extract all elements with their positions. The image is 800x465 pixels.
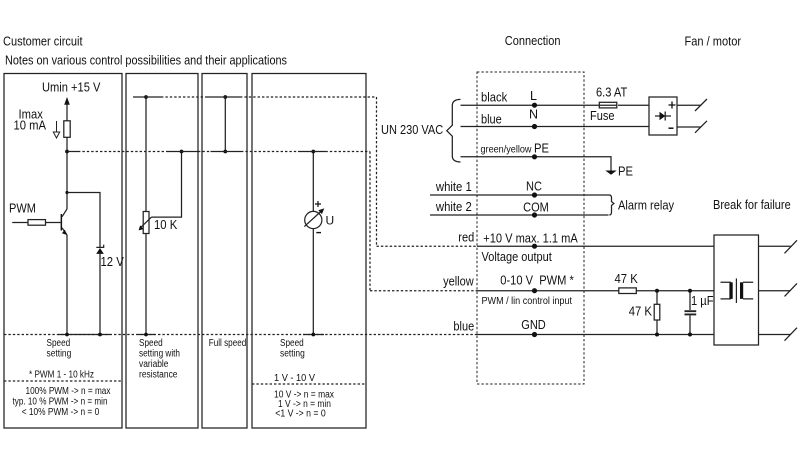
svg-text:U: U xyxy=(326,214,335,228)
svg-text:Break for failure: Break for failure xyxy=(713,198,791,212)
svg-text:blue: blue xyxy=(481,112,502,126)
svg-text:Umin +15 V: Umin +15 V xyxy=(42,81,101,95)
svg-text:white 2: white 2 xyxy=(435,200,472,214)
wire GND through break output xyxy=(759,334,791,336)
+10V bus: dashed seg to box3 node xyxy=(161,96,205,98)
box1: collector branch dot xyxy=(65,191,68,194)
fan rectifier diode line xyxy=(655,115,671,117)
svg-text:Fan / motor: Fan / motor xyxy=(685,35,742,49)
+10V bus: dashed horiz to connection box xyxy=(377,245,478,247)
svg-text:6.3 AT: 6.3 AT xyxy=(596,86,628,100)
svg-text:0-10 V PWM *: 0-10 V PWM * xyxy=(500,274,574,288)
control bus: dashed to box4 xyxy=(241,151,298,153)
+10V bus: solid seg in box2 xyxy=(133,96,161,98)
control bus: solid seg box2 node xyxy=(168,151,198,153)
wire N (blue) xyxy=(461,126,650,128)
svg-text:Notes on various control possi: Notes on various control possibilities a… xyxy=(5,54,287,68)
svg-text:PWM: PWM xyxy=(9,202,36,216)
wire 0-10V through break output xyxy=(759,290,791,292)
svg-text:PE: PE xyxy=(534,141,549,155)
fan - output wire xyxy=(677,126,701,128)
box4: node dot xyxy=(311,150,315,154)
fuse element line xyxy=(599,104,617,106)
box1: wire resistor to node xyxy=(66,137,68,209)
svg-text:<1 V -> n = 0: <1 V -> n = 0 xyxy=(275,409,326,420)
customer box 2 xyxy=(126,74,198,429)
fan rectifier diode triangle xyxy=(660,112,666,121)
PE earth drop arrow xyxy=(605,171,616,175)
break box connector symbol: centre pin xyxy=(735,278,737,303)
control bus: dashed horiz to connection box xyxy=(370,290,477,292)
box1: small current arrow (open head) xyxy=(53,121,59,138)
svg-text:red: red xyxy=(458,230,474,244)
fan + output wire xyxy=(677,104,701,106)
svg-text:Customer circuit: Customer circuit xyxy=(3,35,83,49)
control bus: solid seg box4 node xyxy=(298,151,325,153)
box3: full-speed strap wire xyxy=(224,97,226,152)
voltmeter minus sign xyxy=(316,232,321,234)
box3: strap dots xyxy=(223,95,227,99)
svg-text:Connection: Connection xyxy=(505,34,561,48)
svg-text:10 K: 10 K xyxy=(154,218,178,232)
svg-text:47 K: 47 K xyxy=(629,305,653,319)
box2: vertical wire from +10 bus to pot xyxy=(145,97,147,212)
svg-text:Fuse: Fuse xyxy=(590,109,615,123)
svg-text:1 V - 10 V: 1 V - 10 V xyxy=(274,373,315,384)
fan + output break slash xyxy=(695,99,707,111)
transistor Q1 emitter arrowhead xyxy=(62,230,67,235)
svg-text:setting: setting xyxy=(47,349,72,360)
customer box 4 xyxy=(252,74,366,429)
customer box 1 xyxy=(4,74,122,429)
wire 0-10V right of resistor xyxy=(636,290,714,292)
pot bottom wire to ground bus xyxy=(145,234,147,335)
pot wiper node dot xyxy=(180,150,184,154)
emitter wire to ground bus xyxy=(66,235,68,335)
svg-text:resistance: resistance xyxy=(139,370,178,381)
svg-text:100% PWM -> n = max: 100% PWM -> n = max xyxy=(26,386,111,397)
box1: wire to zener branch xyxy=(67,193,100,248)
svg-text:green/yellow: green/yellow xyxy=(481,144,533,155)
svg-text:10 mA: 10 mA xyxy=(14,119,47,133)
potentiometer 10K body xyxy=(143,212,149,234)
svg-text:variable: variable xyxy=(139,359,169,370)
voltmeter plus sign xyxy=(315,201,321,207)
+10V bus: solid seg box3 xyxy=(205,96,240,98)
control bus: dashed to corner xyxy=(325,151,370,153)
box1: resistor Imax (vertical) xyxy=(64,121,70,138)
fuse body xyxy=(599,102,617,108)
zener lower wire xyxy=(99,254,101,335)
box4 separator dashed xyxy=(252,383,366,385)
wire +10V through break output xyxy=(759,245,791,247)
svg-text:setting with: setting with xyxy=(139,349,180,360)
svg-text:12 V: 12 V xyxy=(101,255,125,269)
svg-text:Alarm relay: Alarm relay xyxy=(618,199,675,213)
transistor Q1 emitter diagonal xyxy=(62,228,67,235)
break slash yellow line xyxy=(785,283,798,296)
wire PE (green/yellow) xyxy=(461,157,612,171)
junction dots on connection lines xyxy=(532,103,537,108)
wire +10V (red) solid xyxy=(477,245,714,247)
wire L (black) xyxy=(461,104,650,106)
svg-text:black: black xyxy=(481,91,508,105)
ground bus junction dots xyxy=(65,333,69,337)
svg-text:* PWM 1 - 10 kHz: * PWM 1 - 10 kHz xyxy=(29,370,94,381)
svg-text:GND: GND xyxy=(521,318,546,332)
control bus: dashed vertical drop xyxy=(369,152,371,291)
svg-text:white 1: white 1 xyxy=(435,180,472,194)
svg-text:1 µF: 1 µF xyxy=(691,294,714,308)
svg-text:blue: blue xyxy=(453,320,474,334)
capacitor 1uF plates xyxy=(685,311,697,314)
transistor Q1 base bar xyxy=(61,214,63,231)
wire COM xyxy=(430,214,609,216)
node dots at 47K and cap xyxy=(655,289,659,293)
break slash gnd line xyxy=(785,328,798,341)
svg-text:setting: setting xyxy=(280,349,305,360)
ground bus dashed across customer boxes xyxy=(4,334,477,336)
box1: supply vertical wire upper xyxy=(66,103,68,121)
box1: supply arrow up xyxy=(64,97,70,105)
+10V bus: dashed vertical drop xyxy=(376,97,378,246)
voltmeter arrow xyxy=(304,211,322,227)
svg-text:Voltage output: Voltage output xyxy=(482,250,553,264)
svg-text:Speed: Speed xyxy=(139,338,163,349)
svg-text:Full speed: Full speed xyxy=(209,338,247,349)
svg-text:47 K: 47 K xyxy=(615,272,639,286)
resistor 47K vertical: leads xyxy=(656,291,658,335)
svg-text:PWM / lin control input: PWM / lin control input xyxy=(482,296,573,307)
svg-text:COM: COM xyxy=(523,201,549,215)
potentiometer wiper arrow xyxy=(140,217,151,228)
fan rectifier minus xyxy=(669,127,674,129)
wire 0-10V (yellow) solid left of resistor xyxy=(477,290,619,292)
break slash red line xyxy=(785,240,798,253)
box2: junction dot on +10 bus xyxy=(144,95,148,99)
resistor 47K horizontal body xyxy=(619,288,637,294)
wire GND solid xyxy=(477,334,714,336)
svg-text:Speed: Speed xyxy=(47,338,71,349)
control bus: dashed to box2 xyxy=(78,151,168,153)
+10V bus: dashed seg to right corner xyxy=(240,96,377,98)
break-for-failure box xyxy=(714,235,759,345)
control bus: solid seg box3 node xyxy=(211,151,242,153)
brace for UN 230 VAC xyxy=(447,99,461,162)
connection box dashed xyxy=(477,72,584,384)
fan rectifier box xyxy=(649,97,677,135)
base resistor (horizontal) xyxy=(28,220,46,226)
zener diode D1 12V: cathode bar xyxy=(96,245,103,248)
box1 separator dashed xyxy=(4,380,122,382)
svg-text:N: N xyxy=(529,108,538,122)
fan - output break slash xyxy=(695,121,707,133)
customer box 3 xyxy=(202,74,247,429)
capacitor 1uF leads xyxy=(689,291,691,335)
svg-text:PE: PE xyxy=(618,165,633,179)
svg-text:NC: NC xyxy=(526,180,542,194)
zener diode D1 12V: triangle xyxy=(96,248,104,254)
wire NC with relay bracket upper xyxy=(430,195,614,215)
svg-text:Speed: Speed xyxy=(280,338,304,349)
svg-text:< 10% PWM -> n = 0: < 10% PWM -> n = 0 xyxy=(22,407,100,418)
pot wiper wire xyxy=(152,152,182,218)
svg-text:typ. 10 % PWM -> n = min: typ. 10 % PWM -> n = min xyxy=(13,397,108,408)
voltmeter U circle xyxy=(305,211,322,228)
svg-text:UN 230 VAC: UN 230 VAC xyxy=(381,123,443,137)
ground bus solid segments at junctions xyxy=(58,334,324,336)
box1: node dot on control line xyxy=(65,150,69,154)
transistor Q1 collector diagonal xyxy=(62,209,67,217)
control bus: dashed gap xyxy=(198,151,211,153)
base input wire xyxy=(12,222,60,224)
voltmeter lower wire to ground bus xyxy=(312,229,314,335)
svg-text:+10 V max. 1.1 mA: +10 V max. 1.1 mA xyxy=(483,232,578,246)
control bus: solid seg at box1 node xyxy=(67,151,78,153)
resistor 47K vertical body xyxy=(654,304,660,320)
svg-text:L: L xyxy=(530,89,537,103)
fan rectifier plus xyxy=(669,102,676,109)
fan rectifier diode bar xyxy=(664,112,666,121)
break box connector symbol: right half xyxy=(743,282,753,299)
break box connector symbol: left half xyxy=(721,282,731,300)
box4: wire control node to voltmeter xyxy=(312,152,314,212)
svg-text:yellow: yellow xyxy=(443,275,474,289)
